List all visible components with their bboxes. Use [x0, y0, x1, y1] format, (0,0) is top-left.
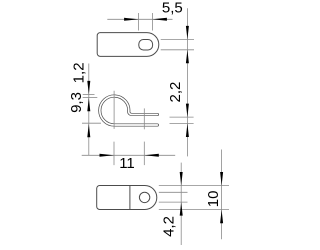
top view: slot hole — [139, 40, 153, 51]
dim 1,2: down arrow — [87, 81, 90, 95]
svg-text:11: 11 — [119, 155, 135, 172]
clamp vertical centerline (upper segment) — [113, 91, 115, 129]
dim 5,5: left arrow — [124, 18, 139, 21]
dim 9,3: bottom extension line — [82, 122, 101, 124]
hole height: top extension line — [161, 38, 194, 40]
hole height: bottom extension line — [161, 49, 194, 51]
dim 9,3: bottom up arrow — [87, 124, 90, 138]
dim 10: up arrow — [220, 210, 223, 224]
hole height: up arrow — [186, 50, 189, 64]
dim 5,5: left extension line — [138, 13, 140, 31]
dim 11: left arrow — [100, 154, 115, 157]
dim 5,5: right arrow — [152, 18, 167, 21]
top view: flat tab outline — [97, 33, 159, 57]
dim 4,2: up arrow — [180, 202, 183, 216]
left dimension line column — [88, 64, 90, 156]
dim 11: right arrow — [144, 154, 159, 157]
dim 11: left extension line — [113, 142, 115, 166]
svg-text:5,5: 5,5 — [162, 0, 183, 17]
dim 10: dimension line — [221, 150, 223, 240]
bottom view: bottom extension line — [159, 209, 229, 211]
svg-text:10: 10 — [205, 191, 222, 208]
bottom view: top extension line — [159, 185, 229, 187]
dim 2,2: top extension line — [170, 116, 194, 118]
dim 1,2: up arrow — [87, 98, 90, 112]
hole height: down arrow — [186, 26, 189, 40]
dim 2,2: bottom extension line — [170, 123, 194, 125]
bottom view: round hole — [139, 192, 149, 202]
dim 2,2: up arrow — [186, 124, 189, 138]
dim 5,5: dimension line — [107, 18, 172, 20]
dim 11: right extension line — [143, 142, 145, 166]
svg-text:4,2: 4,2 — [160, 216, 177, 237]
svg-text:1,2: 1,2 — [71, 62, 88, 83]
bottom view: hole bottom extension line — [159, 201, 188, 203]
dim 11: dimension line — [82, 154, 176, 156]
dim 1,2: bottom extension line — [83, 96, 98, 98]
bottom view: bend line — [129, 186, 131, 210]
dim 4,2: down arrow — [180, 172, 183, 186]
svg-text:9,3: 9,3 — [68, 92, 85, 113]
bottom view: hole top extension line — [159, 191, 188, 193]
svg-text:2,2: 2,2 — [167, 82, 184, 103]
dim 5,5: right extension line — [151, 13, 153, 31]
dim 2,2: down arrow — [186, 104, 189, 118]
bottom view: tab outline — [97, 186, 157, 210]
side view: clamp strip profile (double-line band) — [100, 96, 158, 125]
dim 10: down arrow — [220, 172, 223, 186]
projection line through clamp legs — [143, 108, 145, 129]
right dimension line column — [186, 8, 188, 156]
dim 4,2: dimension line — [180, 163, 182, 245]
dim 1,2: top extension line — [83, 93, 95, 95]
